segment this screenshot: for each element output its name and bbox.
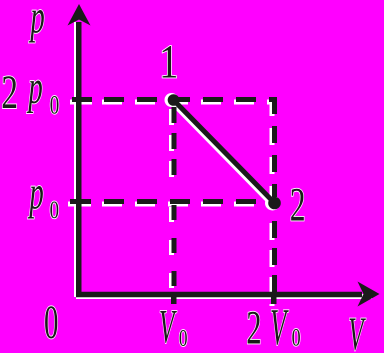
- dashed line at 2V0 (vertical): [272, 97, 277, 197]
- svg-text:1: 1: [159, 36, 178, 89]
- svg-text:p: p: [26, 61, 43, 114]
- svg-text:2: 2: [1, 65, 18, 118]
- dashed line at p0 level (horizontal): [104, 199, 268, 204]
- dashed line at 2p0 level (horizontal): [104, 97, 277, 102]
- process line 1-2 (diagonal): [174, 100, 275, 203]
- svg-text:0: 0: [292, 324, 301, 352]
- white halo under lines (offset left-down artifacts): [68, 22, 372, 306]
- svg-text:0: 0: [179, 324, 188, 352]
- svg-text:0: 0: [50, 91, 59, 120]
- tick p0 on y-axis: [70, 199, 91, 204]
- svg-text:0: 0: [44, 296, 58, 349]
- svg-text:p: p: [27, 166, 44, 219]
- y-axis (p axis): [68, 4, 91, 297]
- label 2p0: [1, 61, 59, 120]
- svg-text:0: 0: [50, 195, 59, 223]
- point 1: [168, 94, 180, 106]
- tick 2V0 below x-axis: [271, 297, 277, 304]
- tick 2p0 on y-axis: [72, 97, 92, 102]
- svg-text:p: p: [28, 0, 45, 44]
- label p0: [27, 166, 59, 224]
- label V0 (x-axis tick): [159, 301, 188, 353]
- x-axis (V axis): [76, 282, 380, 307]
- tick V0 below x-axis: [171, 297, 177, 304]
- dashed line at V0 (vertical): [172, 107, 177, 175]
- svg-text:2: 2: [290, 178, 306, 231]
- label 2V0 (x-axis tick): [246, 298, 300, 353]
- svg-text:2: 2: [246, 301, 261, 353]
- point 2: [268, 197, 281, 210]
